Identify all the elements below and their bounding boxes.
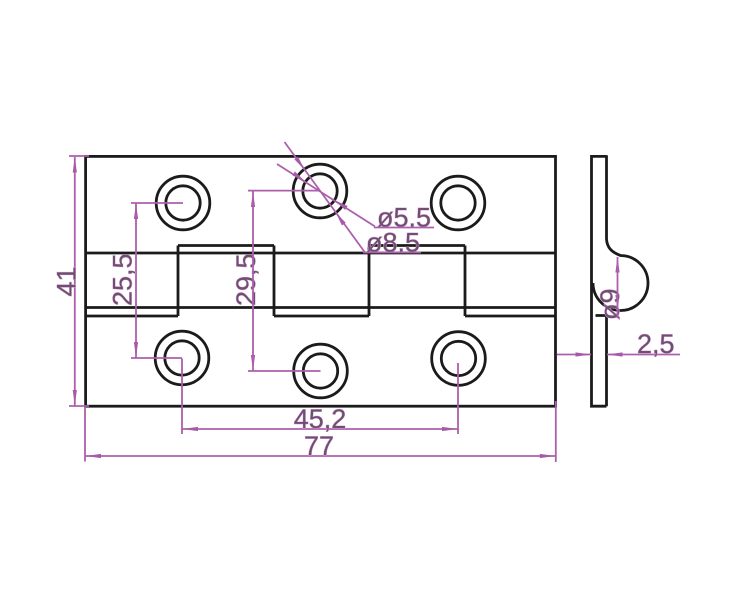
svg-text:41: 41 bbox=[52, 266, 82, 296]
svg-text:77: 77 bbox=[304, 431, 334, 461]
svg-text:45,2: 45,2 bbox=[294, 404, 347, 434]
svg-text:25,5: 25,5 bbox=[108, 253, 138, 306]
svg-text:2,5: 2,5 bbox=[637, 329, 675, 359]
svg-text:ø9: ø9 bbox=[595, 288, 625, 320]
svg-text:29,5: 29,5 bbox=[231, 253, 261, 306]
